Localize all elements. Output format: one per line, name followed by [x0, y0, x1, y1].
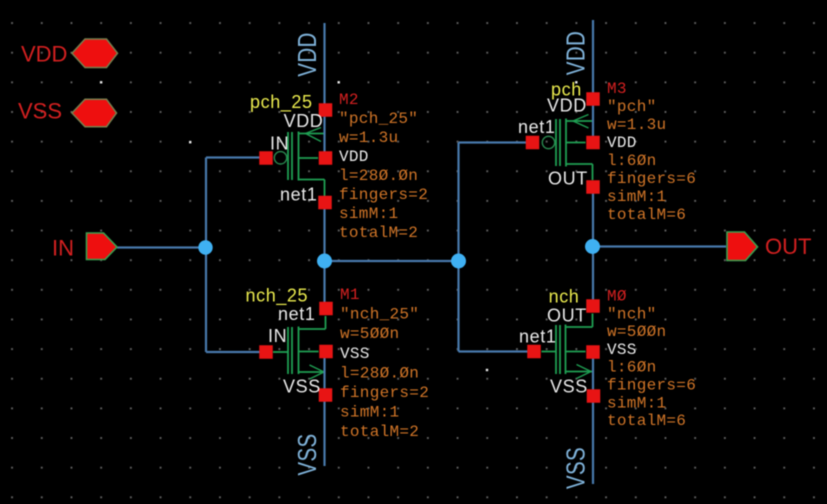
- svg-text:M3: M3: [607, 80, 627, 98]
- svg-text:net1: net1: [280, 185, 317, 205]
- svg-text:simM:1: simM:1: [607, 394, 666, 412]
- svg-text:IN: IN: [270, 134, 289, 154]
- svg-text:nch: nch: [549, 287, 580, 307]
- svg-text:l=28Ø.Øn: l=28Ø.Øn: [339, 167, 418, 185]
- svg-text:OUT: OUT: [548, 169, 588, 189]
- svg-text:"nch": "nch": [607, 305, 657, 323]
- svg-text:l:6Øn: l:6Øn: [607, 152, 657, 170]
- svg-text:fingers=6: fingers=6: [607, 170, 696, 188]
- svg-text:fingers=6: fingers=6: [607, 377, 696, 395]
- svg-text:VDD: VDD: [607, 134, 637, 152]
- svg-text:simM:1: simM:1: [339, 205, 398, 223]
- svg-text:VSS: VSS: [550, 377, 588, 397]
- svg-text:VSS: VSS: [561, 447, 590, 489]
- svg-text:VDD: VDD: [284, 111, 324, 131]
- svg-text:"nch_25": "nch_25": [340, 306, 419, 324]
- svg-text:VDD: VDD: [339, 148, 369, 166]
- svg-text:simM:1: simM:1: [607, 188, 666, 206]
- svg-text:pch_25: pch_25: [250, 92, 313, 113]
- svg-text:simM:1: simM:1: [340, 404, 399, 422]
- svg-text:MØ: MØ: [607, 288, 627, 306]
- svg-text:"pch": "pch": [607, 98, 657, 116]
- svg-text:net1: net1: [278, 304, 315, 324]
- svg-text:totalM=6: totalM=6: [607, 412, 686, 430]
- svg-text:IN: IN: [52, 235, 74, 260]
- svg-text:VSS: VSS: [18, 98, 62, 123]
- svg-text:M1: M1: [340, 286, 360, 304]
- svg-text:w=1.3u: w=1.3u: [339, 129, 398, 147]
- svg-text:VSS: VSS: [340, 345, 370, 363]
- svg-text:fingers=2: fingers=2: [340, 384, 429, 402]
- svg-text:w=5ØØn: w=5ØØn: [340, 325, 399, 343]
- svg-text:VSS: VSS: [283, 377, 321, 397]
- svg-text:VDD: VDD: [547, 96, 587, 116]
- svg-text:VSS: VSS: [293, 433, 322, 475]
- svg-text:OUT: OUT: [765, 234, 811, 259]
- svg-text:VDD: VDD: [561, 31, 590, 76]
- svg-text:w=5ØØn: w=5ØØn: [607, 323, 666, 341]
- svg-text:VDD: VDD: [21, 41, 67, 66]
- svg-text:l=28Ø.Øn: l=28Ø.Øn: [340, 364, 419, 382]
- svg-text:fingers=2: fingers=2: [339, 186, 428, 204]
- svg-text:totalM=6: totalM=6: [607, 206, 686, 224]
- svg-text:IN: IN: [268, 326, 287, 346]
- svg-text:OUT: OUT: [547, 306, 587, 326]
- svg-text:VSS: VSS: [607, 341, 637, 359]
- svg-text:totalM=2: totalM=2: [339, 224, 418, 242]
- svg-text:"pch_25": "pch_25": [339, 110, 418, 128]
- svg-text:net1: net1: [519, 326, 556, 346]
- svg-text:w=1.3u: w=1.3u: [607, 116, 666, 134]
- svg-text:net1: net1: [518, 117, 555, 137]
- svg-text:M2: M2: [339, 91, 359, 109]
- svg-text:totalM=2: totalM=2: [340, 423, 419, 441]
- svg-text:VDD: VDD: [293, 32, 322, 77]
- svg-text:l:6Øn: l:6Øn: [607, 359, 657, 377]
